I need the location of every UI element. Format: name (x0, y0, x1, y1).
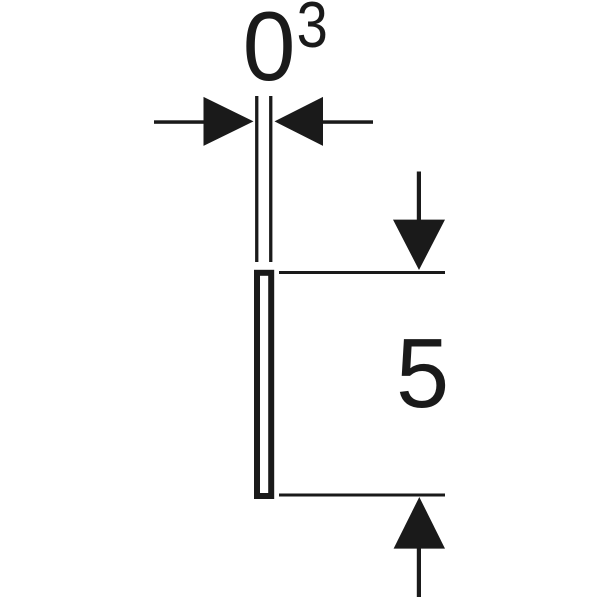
svg-text:0: 0 (243, 0, 296, 101)
svg-text:5: 5 (396, 318, 449, 429)
svg-text:3: 3 (297, 0, 328, 61)
